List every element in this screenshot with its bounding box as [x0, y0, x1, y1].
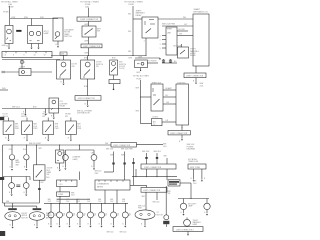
wire X3 right	[147, 60, 158, 63]
label right of C6	[71, 192, 75, 196]
joint connector J6	[168, 131, 190, 135]
svg-text:HOT AT ALL TIMES: HOT AT ALL TIMES	[1, 1, 18, 4]
label above E3	[138, 205, 145, 209]
svg-text:24-8: 24-8	[200, 85, 204, 87]
label right of S5	[15, 124, 20, 130]
svg-text:LP: LP	[105, 215, 107, 217]
wire to relay K1	[133, 18, 142, 20]
svg-text:HOT AT ALL TIMES: HOT AT ALL TIMES	[133, 75, 150, 78]
ground (L17)	[124, 226, 126, 228]
svg-text:OIL: OIL	[129, 213, 132, 215]
svg-text:FUSE: FUSE	[8, 6, 14, 8]
ground wire S8	[68, 135, 71, 140]
wire B6 branch right	[166, 177, 168, 180]
wire K3 to U3 pin3	[163, 102, 176, 104]
ground wire X4	[57, 163, 60, 169]
ground wire L16	[111, 218, 114, 226]
connector arrows between L3 L4	[16, 185, 20, 187]
label between lamps	[15, 159, 20, 166]
wire J10 to package ellipse	[142, 192, 147, 210]
ground (L11)	[58, 226, 60, 228]
connector bar 2 (dark)	[33, 208, 42, 210]
ground wire S7	[45, 135, 48, 140]
lamp box SPOT LAMP (two bulbs)	[28, 26, 43, 44]
joint connector J1	[77, 17, 101, 21]
component X4 (resistor box)	[56, 150, 64, 163]
ground (interior lamp)	[8, 48, 10, 50]
wire branch to relay K3	[141, 96, 151, 98]
ground (E3)	[144, 226, 146, 228]
svg-text:1 2: 1 2	[153, 124, 155, 126]
svg-text:JOINT CONNECTOR: JOINT CONNECTOR	[143, 190, 161, 192]
inline component X1 (circuit breaker)	[19, 67, 31, 76]
wire drop from B3 (1)	[23, 109, 25, 114]
svg-text:SEE: SEE	[122, 199, 125, 201]
svg-text:SEE: SEE	[87, 199, 90, 201]
lamp L11	[57, 212, 63, 218]
label above lamp L16	[110, 199, 113, 203]
svg-text:24-8: 24-8	[71, 195, 74, 197]
label lamp L10	[54, 213, 57, 217]
wire drop to J8 (2)	[156, 153, 158, 164]
svg-text:OIL: OIL	[94, 213, 97, 215]
wire U1 bottom stub	[195, 66, 197, 73]
wire L9 feed	[186, 218, 188, 220]
wire drop to door switch A	[63, 56, 65, 61]
svg-text:SEE: SEE	[66, 199, 69, 201]
svg-text:B/W: B/W	[85, 24, 89, 26]
svg-text:SEE 24-8: SEE 24-8	[12, 107, 20, 109]
wire G/Y into U1	[162, 24, 193, 26]
component X2 (cigarette lighter)	[49, 98, 59, 113]
wire drop from B3 (2)	[44, 109, 46, 114]
svg-text:LP: LP	[83, 215, 85, 217]
label switch row 3	[42, 114, 48, 118]
label S2	[72, 64, 78, 68]
note see 24-8 (under charge lamp)	[95, 171, 102, 175]
label key switch	[97, 28, 102, 32]
ground wire spot lamp 1	[31, 44, 33, 48]
wire top stub switch 4	[70, 118, 72, 122]
svg-text:THEFT: THEFT	[167, 29, 174, 31]
joint connector J11	[173, 227, 203, 232]
svg-text:B/W: B/W	[85, 41, 89, 43]
wire J9 ground 1	[191, 169, 194, 180]
wire fuse F3 down to bus	[128, 6, 133, 56]
bus node B1 (horizontal feed)	[10, 18, 58, 20]
wire drop to spot lamps	[31, 19, 33, 26]
svg-text:B: B	[122, 224, 123, 226]
label under lamp row	[107, 232, 127, 234]
bus node B9 (main lamp bus)	[44, 203, 128, 205]
wire K3 to U3 pin2	[163, 95, 176, 97]
wire drop to lamp L17	[125, 203, 126, 212]
page reference black square (bottom left)	[0, 231, 5, 236]
wire S3 down	[84, 79, 88, 96]
svg-text:SW: SW	[97, 31, 100, 33]
label lamp L13	[83, 213, 86, 217]
ground (S6)	[26, 140, 28, 142]
ground (L15)	[100, 226, 102, 228]
label above lamp L11	[56, 199, 59, 203]
joint connector J10	[141, 188, 167, 193]
label right of X5	[193, 181, 197, 185]
wire U2 right pin to marks	[177, 29, 188, 31]
ground wire L17	[122, 218, 125, 226]
ground wire L5	[63, 160, 66, 168]
label switch row 2	[21, 114, 27, 118]
ground (J5)	[195, 83, 197, 85]
wire J11 down	[187, 231, 189, 234]
svg-text:B: B	[111, 224, 112, 226]
label above lamp L13	[77, 199, 80, 203]
wire fuse F1 to bus	[9, 6, 11, 19]
ground wire L4	[24, 188, 27, 194]
wire J1 to key switch	[85, 21, 89, 26]
svg-text:JOINT CONNECTOR: JOINT CONNECTOR	[80, 19, 99, 21]
ground (L16)	[112, 226, 114, 228]
svg-text:LP: LP	[54, 215, 56, 217]
pin stub U2 left 2	[160, 39, 166, 41]
svg-text:F: F	[24, 62, 25, 64]
svg-text:6: 6	[13, 55, 14, 57]
svg-text:OIL: OIL	[73, 213, 76, 215]
svg-text:OIL: OIL	[63, 213, 66, 215]
wire C5 stubs to bus	[105, 190, 117, 204]
svg-text:24-8: 24-8	[110, 201, 113, 203]
svg-text:R/W: R/W	[12, 17, 16, 19]
ground (J11)	[187, 234, 189, 236]
joint connector J8	[141, 164, 176, 169]
ground (J9-1)	[193, 180, 195, 182]
svg-text:B/L: B/L	[174, 61, 177, 63]
wire relay K1 to control unit W/L	[158, 17, 193, 19]
ground (B3 drop 2)	[45, 114, 47, 116]
svg-text:B: B	[77, 224, 78, 226]
wire drop to lamp L13	[80, 203, 81, 212]
ground wire luggage lamp	[56, 41, 59, 46]
wire drop to J8 (3)	[164, 155, 168, 164]
ground (spot lamp 2)	[37, 48, 39, 50]
svg-text:B/W: B/W	[139, 56, 143, 58]
wire left riser	[3, 145, 5, 203]
svg-text:24-8: 24-8	[122, 201, 125, 203]
label theft warning relay	[136, 10, 146, 16]
label box on bus	[60, 52, 67, 56]
label above J9	[188, 158, 199, 163]
relay K1 (theft warning relay)	[142, 17, 158, 38]
ground (S5)	[7, 140, 9, 142]
label L5	[62, 152, 66, 154]
ground wire L13	[77, 218, 80, 226]
wire S1 to joint connector J2	[85, 37, 89, 44]
ground (X4)	[59, 170, 61, 172]
switch S4 (key switch)	[110, 60, 118, 75]
svg-text:B/W: B/W	[137, 72, 141, 74]
wire top stub switch 2	[26, 118, 28, 122]
label charge lamp	[73, 156, 82, 161]
bus node B6	[132, 175, 177, 178]
svg-text:JOINT CONN: JOINT CONN	[190, 167, 201, 169]
wire drop lamp L1	[9, 145, 13, 154]
svg-text:LAMP): LAMP)	[73, 158, 79, 161]
wire J9 ground 2	[202, 169, 206, 180]
wire top stub switch 3	[47, 118, 49, 122]
pin stub U2 left 1	[160, 35, 166, 37]
wire drop charge lamps	[65, 145, 94, 155]
accessory bus right segment	[31, 71, 52, 73]
svg-text:HOT AT ALL TIMES: HOT AT ALL TIMES	[125, 1, 144, 4]
ground wire S2	[61, 79, 64, 83]
wire drop to lamp L15	[101, 203, 102, 212]
wire stub ground bus	[135, 56, 160, 58]
ground (spot lamp 1)	[30, 48, 32, 50]
label lamp L14	[94, 213, 97, 217]
label GROUND	[2, 45, 7, 47]
label right of S7	[55, 124, 60, 130]
wire vertical to accessory bus	[21, 60, 23, 69]
svg-text:JOINT CONNECTOR: JOINT CONNECTOR	[186, 76, 204, 78]
connector box C4	[57, 180, 78, 187]
switch S1 (key-in switch)	[82, 26, 96, 37]
svg-text:24-8: 24-8	[193, 183, 196, 185]
relay K3 (theft warning relay 2)	[151, 82, 163, 111]
svg-text:SEE 24-8 PWR: SEE 24-8 PWR	[162, 23, 176, 25]
wire drop to door switch B	[87, 56, 89, 61]
package connector E2 (oval)	[29, 212, 45, 221]
wire drop to lamp L12	[69, 203, 70, 212]
wire S9 output down	[38, 180, 44, 203]
svg-text:SEE: SEE	[98, 199, 101, 201]
svg-text:24-8: 24-8	[66, 201, 69, 203]
label lamp L11	[63, 213, 66, 217]
svg-text:FUSE: FUSE	[137, 79, 143, 81]
svg-text:W/L: W/L	[128, 31, 131, 33]
wire ref drop 2	[121, 152, 126, 181]
svg-text:JOINT CONNECTOR 2: JOINT CONNECTOR 2	[176, 229, 194, 231]
connector bar (dark)	[163, 221, 169, 224]
svg-text:8: 8	[24, 55, 25, 57]
lamp L17	[122, 212, 128, 218]
svg-text:24-8: 24-8	[77, 201, 80, 203]
label S3	[96, 62, 104, 68]
joint connector J5	[184, 73, 206, 78]
svg-text:B/W: B/W	[84, 86, 88, 88]
connector box C5 (combination meter)	[95, 180, 130, 190]
svg-text:4: 4	[144, 41, 145, 43]
pin stub U2 left 3	[160, 44, 166, 46]
ground wire S5	[5, 135, 8, 140]
wire label B/W under bus (1)	[84, 58, 88, 60]
svg-text:SW: SW	[47, 174, 50, 176]
svg-text:R/W: R/W	[24, 17, 28, 19]
note see 24-8 power diagram	[187, 144, 196, 150]
svg-text:1 4: 1 4	[4, 55, 7, 57]
connector bar 1 (dark)	[8, 208, 17, 210]
label lamp L15	[105, 213, 108, 217]
lamp L10	[48, 212, 54, 218]
svg-text:OIL: OIL	[105, 213, 108, 215]
svg-text:JOINT CONNECTOR: JOINT CONNECTOR	[170, 133, 188, 135]
label E3	[157, 212, 164, 216]
svg-text:24-8: 24-8	[87, 201, 90, 203]
svg-text:SEE: SEE	[164, 155, 167, 157]
svg-text:B/L B/W: B/L B/W	[179, 29, 186, 31]
wire C3 to U3	[162, 120, 176, 122]
ground (J6)	[181, 139, 183, 141]
svg-text:METER: METER	[97, 186, 104, 188]
bus node B8 (lamp bus)	[5, 203, 40, 206]
wire drop to J8 (1)	[145, 153, 147, 164]
label above lamp L10	[48, 199, 51, 203]
note HOT AT ALL TIMES (center)	[125, 1, 144, 4]
svg-text:24-8: 24-8	[46, 177, 49, 179]
label switch row 4	[65, 114, 72, 118]
label S9	[47, 168, 54, 177]
ground (L3)	[11, 195, 13, 197]
svg-text:3: 3	[160, 44, 161, 46]
wire label B/W under bus (2)	[112, 58, 116, 60]
ground (L7)	[182, 214, 184, 216]
label see 24-8 (wire refs)	[106, 148, 133, 150]
switch S7 (HOOD SW)	[43, 121, 54, 135]
ground (L8)	[206, 214, 208, 216]
svg-text:B: B	[57, 224, 58, 226]
svg-text:LP: LP	[117, 215, 119, 217]
wire riser into cluster	[78, 172, 80, 181]
ground wire S6	[24, 135, 27, 140]
svg-text:LP: LP	[94, 215, 96, 217]
svg-text:TIMES FUSE: TIMES FUSE	[188, 161, 199, 163]
wire drop to switch S9	[36, 145, 42, 165]
svg-text:SEE 24-8 INST: SEE 24-8 INST	[29, 143, 42, 145]
wire below connector strip	[2, 59, 60, 61]
pin stub U2 left 4	[160, 48, 166, 50]
switch S9 (glove box)	[34, 165, 46, 180]
component X3 (buzzer)	[135, 60, 148, 68]
svg-text:LP: LP	[63, 215, 65, 217]
ground wire E1	[10, 220, 13, 226]
wire drop to interior lamp	[9, 19, 11, 26]
label E1	[22, 213, 29, 219]
svg-text:SEE 24-8: SEE 24-8	[138, 205, 145, 207]
connector box C6	[57, 192, 70, 196]
wire C2 down	[113, 84, 115, 90]
fuse F3	[129, 4, 135, 6]
ground wire L7	[180, 210, 183, 214]
svg-text:JOINT CONNECTOR: JOINT CONNECTOR	[78, 98, 96, 100]
svg-text:B: B	[99, 224, 100, 226]
lamp L15	[99, 212, 105, 218]
ground (L1)	[11, 169, 13, 171]
package connector E3 (oval)	[135, 210, 155, 219]
svg-text:RELAY: RELAY	[190, 54, 197, 57]
ground (L14)	[89, 226, 91, 228]
lamp L5	[63, 155, 69, 161]
wire J10 stub 2	[153, 192, 160, 203]
wire drop to lamp L10	[51, 203, 52, 212]
ground wire L2	[24, 160, 26, 169]
wire to lamp L8	[206, 199, 208, 204]
wire K3 to U3 pin1	[163, 87, 176, 90]
label 24-8 ref	[46, 177, 49, 179]
wire ref drop 1	[104, 152, 115, 173]
lamp L16	[111, 212, 117, 218]
switch S2 (door switch LH)	[57, 60, 71, 79]
svg-text:OIL: OIL	[83, 213, 86, 215]
wire fuse F4 down (W/R)	[136, 80, 142, 124]
label lamp L12	[73, 213, 76, 217]
svg-text:DISTRIBUTION: DISTRIBUTION	[77, 113, 90, 115]
wire drop to lamp L16	[113, 203, 114, 212]
svg-text:B/W: B/W	[33, 107, 37, 109]
svg-text:W/L: W/L	[128, 13, 131, 15]
connector strip C1 (fuse block)	[2, 52, 52, 58]
lamp L1	[9, 155, 14, 160]
lamp L3	[9, 183, 15, 189]
fuse F2	[85, 4, 91, 8]
wire X5 left branch down	[166, 186, 171, 215]
wire drop to pkg connector 1	[6, 201, 13, 208]
label switch row 1	[3, 114, 9, 118]
svg-text:B: B	[67, 224, 68, 226]
wire U2 to U1	[177, 34, 193, 36]
ground wire L14	[88, 218, 91, 226]
ground wire L12	[67, 218, 70, 226]
lamp box INTERIOR LAMP	[5, 25, 13, 43]
ground wire interior lamp	[7, 44, 10, 48]
lamp L6	[91, 155, 97, 161]
wire drop to pkg connector 2	[36, 206, 38, 208]
svg-text:B/W: B/W	[85, 52, 89, 54]
svg-text:W/L: W/L	[183, 17, 186, 19]
joint connector J7 (on bus)	[111, 142, 136, 147]
svg-text:SEE 24-8: SEE 24-8	[154, 151, 161, 153]
wire stub left edge	[0, 88, 8, 90]
ground wire X2	[51, 113, 54, 117]
ground wire E3	[141, 219, 145, 225]
bus B4 right segment	[105, 143, 163, 145]
ground wire L11	[57, 218, 60, 226]
svg-text:MOTOR: MOTOR	[157, 214, 164, 216]
wire X3 down	[137, 68, 142, 75]
ground wire spot lamp 2	[38, 44, 40, 48]
ground wire E2	[34, 220, 37, 226]
svg-text:24-8: 24-8	[163, 146, 166, 148]
wire label R/W	[12, 17, 44, 19]
ground (E1)	[12, 227, 14, 229]
bus node B7 (upper lamp bus)	[57, 196, 90, 203]
label above wire	[162, 23, 176, 25]
svg-text:SEE: SEE	[6, 201, 9, 203]
note HOT IN ON OR START	[81, 1, 100, 4]
svg-text:SEE: SEE	[48, 199, 51, 201]
lamp L13	[77, 212, 83, 218]
svg-text:SW: SW	[168, 193, 171, 195]
wire J3 down to ground	[85, 100, 88, 105]
connector C3 (diode box)	[152, 117, 163, 126]
svg-text:SEE 24-8: SEE 24-8	[107, 232, 114, 234]
ground (X2)	[53, 118, 55, 120]
label luggage lamp switch	[64, 28, 74, 38]
fuse F5 symbol	[21, 61, 25, 64]
wire to lamp L7	[183, 199, 185, 204]
ground (E2)	[36, 227, 38, 229]
label spot lamp	[44, 31, 50, 35]
svg-text:RELAY: RELAY	[136, 14, 143, 17]
svg-text:SW: SW	[65, 116, 68, 118]
wire X5 right branch	[180, 183, 191, 199]
